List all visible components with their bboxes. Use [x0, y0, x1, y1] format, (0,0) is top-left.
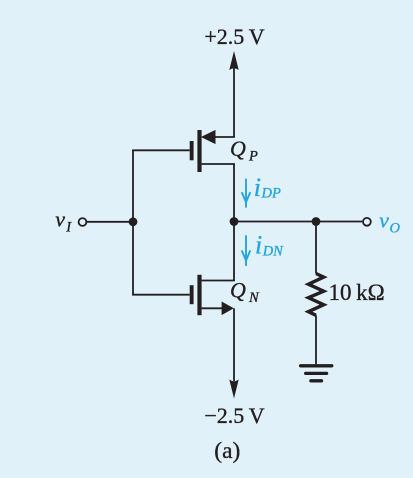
- wire: resistor to ground: [315, 315, 317, 364]
- arrowhead down to -2.5 V: [229, 380, 238, 399]
- node: drain junction dot: [230, 217, 239, 226]
- svg-text:+2.5 V: +2.5 V: [204, 24, 264, 49]
- ground: [301, 366, 332, 381]
- svg-text:O: O: [390, 220, 401, 236]
- QP drain lead: [202, 163, 235, 165]
- QN drain lead: [202, 280, 235, 282]
- transistor QP: [190, 130, 235, 172]
- QN gate bar: [190, 285, 194, 304]
- wire: QN source down to -2.5 V: [233, 308, 235, 381]
- QN channel bar: [197, 275, 201, 315]
- wire: node to resistor: [315, 222, 317, 274]
- node: input junction dot: [129, 217, 138, 226]
- svg-text:DN: DN: [262, 244, 284, 260]
- input terminal circle: [79, 218, 87, 226]
- wire: input lead: [87, 221, 134, 223]
- QN source lead: [202, 307, 223, 309]
- arrowhead up to +2.5 V: [229, 51, 238, 70]
- node: resistor tap dot: [312, 217, 321, 226]
- resistor R 10k (zigzag): [308, 274, 323, 316]
- wire: QN drain up to output node: [233, 222, 235, 281]
- svg-text:N: N: [248, 290, 260, 306]
- wire: QN gate lead: [132, 294, 190, 296]
- wire: output horizontal: [234, 221, 362, 223]
- wire: supply stem to QP source: [233, 68, 235, 138]
- svg-text:Q: Q: [230, 136, 246, 161]
- svg-text:i: i: [254, 173, 261, 202]
- wire: gate bus vertical: [132, 150, 134, 294]
- output terminal circle: [363, 218, 371, 226]
- svg-text:(a): (a): [214, 438, 240, 464]
- svg-text:v: v: [55, 207, 65, 232]
- svg-text:v: v: [379, 207, 389, 232]
- svg-text:Q: Q: [230, 278, 246, 303]
- current arrow iDN: [242, 235, 251, 266]
- transistor QN: [190, 275, 235, 315]
- QP gate bar: [190, 141, 194, 160]
- QP source arrowhead (points into channel): [201, 130, 216, 144]
- QN source arrowhead (points out): [222, 302, 234, 316]
- svg-text:i: i: [255, 230, 262, 259]
- svg-text:P: P: [248, 149, 258, 165]
- svg-text:10 kΩ: 10 kΩ: [329, 280, 385, 305]
- QP source lead: [214, 136, 235, 138]
- wire: QP drain down to output node: [233, 164, 235, 222]
- QP channel bar: [197, 130, 201, 172]
- current arrow iDP: [242, 179, 251, 208]
- svg-text:−2.5 V: −2.5 V: [204, 403, 264, 428]
- wire: QP gate lead: [132, 149, 190, 151]
- svg-text:DP: DP: [261, 186, 281, 202]
